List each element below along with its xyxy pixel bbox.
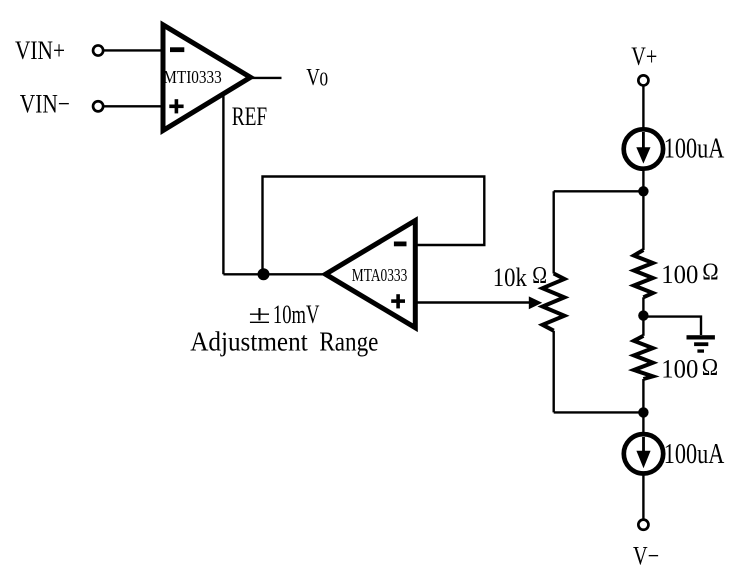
svg-text:REF: REF <box>232 101 268 131</box>
svg-text:0: 0 <box>320 69 329 90</box>
svg-text:±: ± <box>248 299 270 329</box>
svg-text:Ω: Ω <box>532 262 547 289</box>
svg-text:MTI0333: MTI0333 <box>163 67 222 87</box>
svg-text:100: 100 <box>661 353 698 383</box>
svg-text:Adjustment: Adjustment <box>190 327 308 357</box>
svg-text:V+: V+ <box>631 41 657 71</box>
svg-text:V: V <box>306 64 320 91</box>
svg-text:100uA: 100uA <box>664 134 725 165</box>
svg-text:VIN+: VIN+ <box>15 35 65 65</box>
svg-text:100: 100 <box>661 259 698 289</box>
svg-text:Ω: Ω <box>702 259 718 286</box>
svg-text:Ω: Ω <box>702 354 718 381</box>
svg-text:100uA: 100uA <box>664 439 725 470</box>
svg-text:Range: Range <box>319 327 378 357</box>
svg-text:10k: 10k <box>493 262 528 292</box>
svg-text:VIN−: VIN− <box>20 89 70 119</box>
svg-text:V−: V− <box>633 540 659 570</box>
svg-text:MTA0333: MTA0333 <box>352 265 408 285</box>
svg-text:10mV: 10mV <box>273 299 320 329</box>
